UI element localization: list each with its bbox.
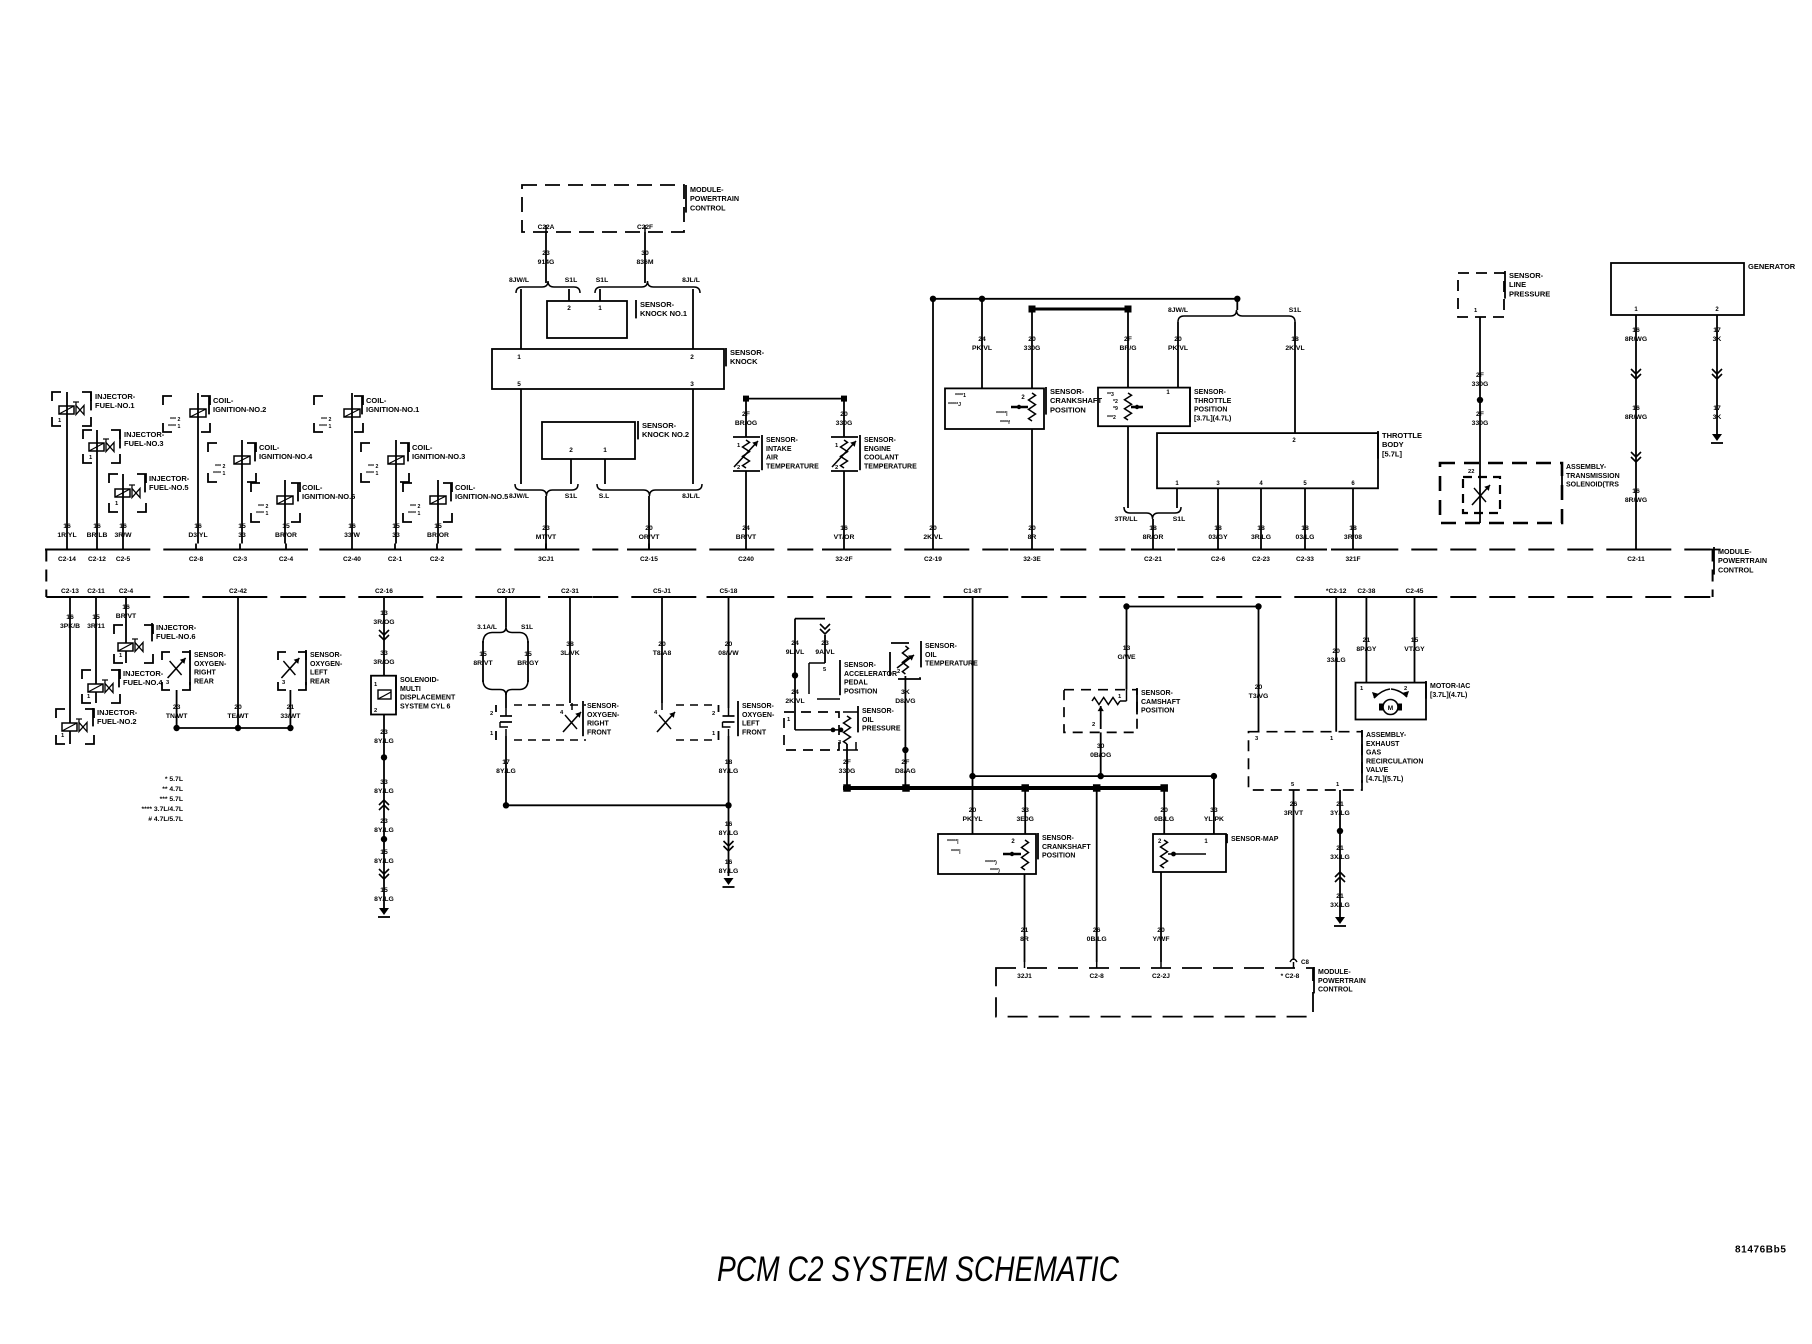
svg-text:IGNITION-NO.6: IGNITION-NO.6 xyxy=(302,492,355,501)
svg-text:21: 21 xyxy=(1021,927,1029,934)
svg-text:3TR/LL: 3TR/LL xyxy=(1114,516,1137,523)
svg-text:C2-33: C2-33 xyxy=(1296,556,1314,563)
svg-text:S1L: S1L xyxy=(521,624,533,631)
svg-text:C2-12: C2-12 xyxy=(88,556,106,563)
svg-text:2: 2 xyxy=(737,465,740,471)
svg-text:2: 2 xyxy=(712,711,715,717)
svg-text:*2: *2 xyxy=(1113,399,1118,405)
svg-text:8JL/L: 8JL/L xyxy=(682,277,700,284)
svg-text:COIL-: COIL- xyxy=(412,443,433,452)
svg-text:SENSOR-: SENSOR- xyxy=(194,652,227,659)
svg-text:33: 33 xyxy=(1210,807,1218,814)
svg-text:321F: 321F xyxy=(1345,556,1360,563)
svg-text:26: 26 xyxy=(1093,927,1101,934)
svg-text:22: 22 xyxy=(1468,469,1474,475)
svg-text:17: 17 xyxy=(502,759,510,766)
svg-text:INJECTOR-: INJECTOR- xyxy=(95,392,136,401)
svg-text:16: 16 xyxy=(1632,327,1640,334)
svg-text:**3: **3 xyxy=(1107,392,1114,398)
svg-text:836M: 836M xyxy=(636,259,653,266)
svg-text:03/LG: 03/LG xyxy=(1296,534,1315,541)
svg-text:C2-45: C2-45 xyxy=(1406,588,1424,595)
svg-text:CRANKSHAFT: CRANKSHAFT xyxy=(1050,396,1102,405)
svg-text:16: 16 xyxy=(119,523,127,530)
svg-text:** 4.7L: ** 4.7L xyxy=(162,786,183,793)
svg-text:REAR: REAR xyxy=(194,678,214,685)
svg-text:POWERTRAIN: POWERTRAIN xyxy=(1718,556,1767,565)
svg-text:18: 18 xyxy=(1291,336,1299,343)
svg-text:3R/08: 3R/08 xyxy=(1344,534,1362,541)
svg-text:8R: 8R xyxy=(1020,936,1029,943)
svg-text:0B/LG: 0B/LG xyxy=(1154,816,1174,823)
svg-text:8Y/LG: 8Y/LG xyxy=(719,868,739,875)
svg-text:FUEL-NO.5: FUEL-NO.5 xyxy=(149,483,189,492)
svg-text:2: 2 xyxy=(897,669,900,675)
svg-text:KNOCK: KNOCK xyxy=(730,357,758,366)
svg-text:COIL-: COIL- xyxy=(213,396,234,405)
svg-text:8R/OR: 8R/OR xyxy=(1143,534,1164,541)
svg-text:17: 17 xyxy=(1713,405,1721,412)
svg-text:M: M xyxy=(1388,705,1393,712)
svg-text:20: 20 xyxy=(658,641,666,648)
svg-text:8R/WG: 8R/WG xyxy=(1625,497,1647,504)
svg-text:15: 15 xyxy=(92,614,100,621)
svg-text:20: 20 xyxy=(234,704,242,711)
svg-text:8Y/LG: 8Y/LG xyxy=(374,788,394,795)
svg-text:30: 30 xyxy=(641,250,649,257)
svg-text:TN/WT: TN/WT xyxy=(166,713,188,720)
svg-text:FUEL-NO.1: FUEL-NO.1 xyxy=(95,401,135,410)
svg-text:23: 23 xyxy=(380,818,388,825)
svg-text:POSITION: POSITION xyxy=(1050,405,1086,414)
svg-text:3X/LG: 3X/LG xyxy=(1330,854,1350,861)
svg-text:20: 20 xyxy=(1174,336,1182,343)
svg-text:33/LG: 33/LG xyxy=(1327,657,1346,664)
svg-text:****f: ****f xyxy=(1000,420,1010,426)
svg-text:FUEL-NO.4: FUEL-NO.4 xyxy=(123,678,163,687)
svg-text:THROTTLE: THROTTLE xyxy=(1382,431,1422,440)
svg-text:20: 20 xyxy=(1028,336,1036,343)
svg-text:33: 33 xyxy=(380,779,388,786)
svg-text:VALVE: VALVE xyxy=(1366,767,1389,774)
svg-text:C2-8: C2-8 xyxy=(1090,973,1105,980)
svg-text:16: 16 xyxy=(1632,488,1640,495)
svg-text:330G: 330G xyxy=(1024,345,1041,352)
svg-text:SENSOR-: SENSOR- xyxy=(742,703,775,710)
svg-text:3R/W: 3R/W xyxy=(115,532,133,539)
svg-text:SENSOR-: SENSOR- xyxy=(1050,387,1085,396)
svg-text:C22F: C22F xyxy=(637,224,653,231)
svg-text:BR/OG: BR/OG xyxy=(735,420,757,427)
svg-text:8R/WG: 8R/WG xyxy=(1625,414,1647,421)
svg-text:IGNITION-NO.4: IGNITION-NO.4 xyxy=(259,452,313,461)
svg-text:SOLENOID(TRS: SOLENOID(TRS xyxy=(1566,482,1619,489)
svg-text:* C2-8: * C2-8 xyxy=(1281,973,1300,980)
svg-text:20: 20 xyxy=(1332,648,1340,655)
svg-text:CONTROL: CONTROL xyxy=(1318,987,1353,994)
svg-text:2: 2 xyxy=(835,465,838,471)
svg-text:3K: 3K xyxy=(1713,336,1722,343)
svg-text:CONTROL: CONTROL xyxy=(690,203,726,212)
svg-text:20: 20 xyxy=(840,411,848,418)
svg-text:OIL: OIL xyxy=(925,652,937,659)
svg-text:18: 18 xyxy=(1214,525,1222,532)
svg-text:33/WT: 33/WT xyxy=(280,713,301,720)
svg-text:C2-4: C2-4 xyxy=(119,588,134,595)
svg-text:32J1: 32J1 xyxy=(1017,973,1032,980)
svg-text:81476Bb5: 81476Bb5 xyxy=(1735,1245,1787,1256)
svg-text:15: 15 xyxy=(282,523,290,530)
svg-text:C2-5: C2-5 xyxy=(116,556,131,563)
svg-text:*** 2: *** 2 xyxy=(170,417,180,423)
svg-text:OXYGEN-: OXYGEN- xyxy=(310,661,343,668)
svg-text:[3.7L](4.7L): [3.7L](4.7L) xyxy=(1430,692,1467,699)
svg-text:POSITION: POSITION xyxy=(1042,853,1075,860)
svg-text:ASSEMBLY-: ASSEMBLY- xyxy=(1366,732,1407,739)
svg-text:15: 15 xyxy=(524,651,532,658)
svg-text:SENSOR-: SENSOR- xyxy=(766,437,799,444)
svg-text:MODULE-: MODULE- xyxy=(1718,547,1752,556)
svg-text:13: 13 xyxy=(380,610,388,617)
svg-text:C5-18: C5-18 xyxy=(720,588,738,595)
svg-text:20: 20 xyxy=(969,807,977,814)
svg-text:8Y/LG: 8Y/LG xyxy=(496,768,516,775)
svg-text:COIL-: COIL- xyxy=(366,396,387,405)
svg-text:IGNITION-NO.1: IGNITION-NO.1 xyxy=(366,405,419,414)
svg-text:*** 5.7L: *** 5.7L xyxy=(160,796,183,803)
svg-text:SOLENOID-: SOLENOID- xyxy=(400,677,440,684)
svg-text:*****): *****) xyxy=(985,860,997,866)
svg-text:POWERTRAIN: POWERTRAIN xyxy=(1318,978,1366,985)
svg-text:BR/VT: BR/VT xyxy=(736,534,757,541)
svg-text:21: 21 xyxy=(1336,845,1344,852)
svg-text:**** 1: **** 1 xyxy=(213,471,226,477)
svg-text:COIL-: COIL- xyxy=(259,443,280,452)
svg-text:CONTROL: CONTROL xyxy=(1718,565,1754,574)
svg-text:LINE: LINE xyxy=(1509,280,1526,289)
svg-text:13: 13 xyxy=(1123,645,1131,652)
svg-text:C2-15: C2-15 xyxy=(640,556,658,563)
svg-text:SENSOR-: SENSOR- xyxy=(1509,271,1544,280)
svg-text:20: 20 xyxy=(1157,927,1165,934)
svg-text:C2-4: C2-4 xyxy=(279,556,294,563)
svg-text:SYSTEM CYL 6: SYSTEM CYL 6 xyxy=(400,703,451,710)
svg-text:08/VW: 08/VW xyxy=(718,650,739,657)
svg-text:****1: ****1 xyxy=(955,393,966,399)
svg-text:2: 2 xyxy=(1092,722,1095,728)
svg-text:**** 1: **** 1 xyxy=(408,511,421,517)
svg-text:24: 24 xyxy=(978,336,986,343)
svg-text:G/WE: G/WE xyxy=(1117,654,1136,661)
svg-text:*****|: *****| xyxy=(947,839,959,845)
svg-text:S1L: S1L xyxy=(596,277,608,284)
svg-text:PRESSURE: PRESSURE xyxy=(1509,289,1550,298)
svg-text:18: 18 xyxy=(1301,525,1309,532)
svg-text:330G: 330G xyxy=(836,420,853,427)
svg-text:24: 24 xyxy=(791,689,799,696)
svg-text:20: 20 xyxy=(1255,684,1263,691)
svg-text:ASSEMBLY-: ASSEMBLY- xyxy=(1566,464,1607,471)
svg-text:16: 16 xyxy=(122,604,130,611)
svg-text:16: 16 xyxy=(194,523,202,530)
svg-text:8P/GY: 8P/GY xyxy=(1356,646,1376,653)
svg-text:C2-2J: C2-2J xyxy=(1152,973,1170,980)
svg-text:*** 2: *** 2 xyxy=(321,417,331,423)
svg-text:8JL/L: 8JL/L xyxy=(682,493,700,500)
svg-text:3Y/LG: 3Y/LG xyxy=(1330,810,1350,817)
svg-text:MODULE-: MODULE- xyxy=(1318,969,1351,976)
svg-text:15: 15 xyxy=(380,887,388,894)
svg-text:C2-21: C2-21 xyxy=(1144,556,1162,563)
svg-text:*****|: *****| xyxy=(996,411,1008,417)
svg-text:T8/A8: T8/A8 xyxy=(653,650,672,657)
svg-text:C8: C8 xyxy=(1301,959,1309,966)
svg-text:TEMPERATURE: TEMPERATURE xyxy=(766,463,819,470)
svg-text:8Y/LG: 8Y/LG xyxy=(719,768,739,775)
svg-text:POSITION: POSITION xyxy=(1141,708,1174,715)
svg-text:23: 23 xyxy=(542,525,550,532)
svg-text:S1L: S1L xyxy=(565,493,577,500)
svg-text:BR/G: BR/G xyxy=(1120,345,1137,352)
svg-text:PK/YL: PK/YL xyxy=(962,816,982,823)
svg-text:BR/LB: BR/LB xyxy=(87,532,108,539)
svg-text:TE/WT: TE/WT xyxy=(227,713,249,720)
svg-text:33: 33 xyxy=(238,532,246,539)
svg-text:ENGINE: ENGINE xyxy=(864,446,891,453)
svg-text:*** 2: *** 2 xyxy=(215,464,225,470)
svg-text:26: 26 xyxy=(1290,801,1298,808)
svg-text:C2-2: C2-2 xyxy=(430,556,445,563)
svg-text:8Y/LG: 8Y/LG xyxy=(374,858,394,865)
svg-text:32-2F: 32-2F xyxy=(835,556,852,563)
svg-text:SENSOR-: SENSOR- xyxy=(730,348,765,357)
svg-text:**** 3.7L/4.7L: **** 3.7L/4.7L xyxy=(141,806,183,813)
svg-text:2F: 2F xyxy=(742,411,750,418)
svg-text:DISPLACEMENT: DISPLACEMENT xyxy=(400,695,456,702)
svg-text:330G: 330G xyxy=(1472,420,1489,427)
svg-text:2: 2 xyxy=(690,354,694,361)
svg-text:8R: 8R xyxy=(1028,534,1037,541)
svg-text:20: 20 xyxy=(725,641,733,648)
svg-text:CAMSHAFT: CAMSHAFT xyxy=(1141,699,1181,706)
svg-text:TRANSMISSION: TRANSMISSION xyxy=(1566,473,1620,480)
svg-text:PRESSURE: PRESSURE xyxy=(862,726,901,733)
svg-text:**** 1: **** 1 xyxy=(168,424,181,430)
svg-text:3: 3 xyxy=(690,381,694,388)
svg-text:RIGHT: RIGHT xyxy=(587,721,610,728)
svg-text:16: 16 xyxy=(725,821,733,828)
svg-text:****): ****) xyxy=(990,868,1000,874)
svg-text:*****J: *****J xyxy=(948,402,961,408)
svg-text:FRONT: FRONT xyxy=(587,729,612,736)
svg-text:16: 16 xyxy=(348,523,356,530)
svg-text:T3/VG: T3/VG xyxy=(1249,693,1269,700)
svg-text:3K: 3K xyxy=(901,689,910,696)
svg-text:IGNITION-NO.2: IGNITION-NO.2 xyxy=(213,405,266,414)
svg-text:**** 1: **** 1 xyxy=(366,471,379,477)
svg-text:24: 24 xyxy=(791,640,799,647)
svg-text:18: 18 xyxy=(1149,525,1157,532)
svg-text:20: 20 xyxy=(645,525,653,532)
svg-text:S.L: S.L xyxy=(599,493,610,500)
svg-text:21: 21 xyxy=(287,704,295,711)
svg-text:03/GY: 03/GY xyxy=(1208,534,1228,541)
svg-text:*9: *9 xyxy=(1113,406,1118,412)
svg-text:VT/OR: VT/OR xyxy=(834,534,855,541)
svg-text:2: 2 xyxy=(567,305,571,312)
svg-text:**** 1: **** 1 xyxy=(256,511,269,517)
svg-text:33: 33 xyxy=(380,650,388,657)
svg-text:PCM C2 SYSTEM SCHEMATIC: PCM C2 SYSTEM SCHEMATIC xyxy=(717,1250,1120,1289)
svg-text:THROTTLE: THROTTLE xyxy=(1194,398,1232,405)
svg-text:COIL-: COIL- xyxy=(455,483,476,492)
svg-text:20: 20 xyxy=(1028,525,1036,532)
svg-text:24: 24 xyxy=(742,525,750,532)
svg-text:3X/LG: 3X/LG xyxy=(1330,902,1350,909)
svg-text:330G: 330G xyxy=(1472,381,1489,388)
svg-text:IGNITION-NO.5: IGNITION-NO.5 xyxy=(455,492,508,501)
svg-text:COOLANT: COOLANT xyxy=(864,455,899,462)
svg-text:16: 16 xyxy=(1632,405,1640,412)
svg-text:[4.7L](5.7L): [4.7L](5.7L) xyxy=(1366,776,1403,783)
svg-text:8R/WG: 8R/WG xyxy=(1625,336,1647,343)
svg-text:2F: 2F xyxy=(1476,411,1484,418)
svg-text:3PK/B: 3PK/B xyxy=(60,623,80,630)
svg-text:C2-11: C2-11 xyxy=(1627,556,1645,563)
svg-text:C2-19: C2-19 xyxy=(924,556,942,563)
svg-text:S1L: S1L xyxy=(565,277,577,284)
svg-text:2F: 2F xyxy=(901,759,909,766)
svg-text:BR/GY: BR/GY xyxy=(517,660,539,667)
svg-text:S1L: S1L xyxy=(1289,307,1301,314)
svg-text:8Y/LG: 8Y/LG xyxy=(374,827,394,834)
svg-text:C2-42: C2-42 xyxy=(229,588,247,595)
svg-text:LEFT: LEFT xyxy=(742,721,760,728)
svg-text:SENSOR-MAP: SENSOR-MAP xyxy=(1231,836,1279,843)
svg-text:16: 16 xyxy=(725,859,733,866)
svg-text:S1L: S1L xyxy=(1173,516,1185,523)
svg-text:**** 1: **** 1 xyxy=(319,424,332,430)
svg-text:INJECTOR-: INJECTOR- xyxy=(156,623,197,632)
svg-text:8R/VT: 8R/VT xyxy=(473,660,493,667)
svg-text:2: 2 xyxy=(569,447,573,454)
svg-text:YL/PK: YL/PK xyxy=(1204,816,1224,823)
svg-text:3CJ1: 3CJ1 xyxy=(538,556,554,563)
svg-text:KNOCK NO.2: KNOCK NO.2 xyxy=(642,430,689,439)
svg-text:****|: ****| xyxy=(951,849,961,855)
svg-text:BR/OR: BR/OR xyxy=(427,532,449,539)
svg-text:ACCELERATOR: ACCELERATOR xyxy=(844,671,897,678)
svg-text:9L/VL: 9L/VL xyxy=(786,649,805,656)
svg-text:OXYGEN-: OXYGEN- xyxy=(742,712,775,719)
svg-text:16: 16 xyxy=(63,523,71,530)
svg-text:2: 2 xyxy=(1404,686,1407,692)
svg-text:***2: ***2 xyxy=(1107,415,1116,421)
svg-text:C2-6: C2-6 xyxy=(1211,556,1226,563)
svg-text:2K/VL: 2K/VL xyxy=(1285,345,1304,352)
svg-text:C2-1: C2-1 xyxy=(388,556,403,563)
svg-text:FUEL-NO.2: FUEL-NO.2 xyxy=(97,717,137,726)
svg-text:[5.7L]: [5.7L] xyxy=(1382,449,1403,458)
svg-text:POSITION: POSITION xyxy=(1194,407,1227,414)
svg-text:CRANKSHAFT: CRANKSHAFT xyxy=(1042,844,1091,851)
svg-text:8JW/L: 8JW/L xyxy=(509,493,529,500)
svg-text:3R/OG: 3R/OG xyxy=(373,619,394,626)
svg-text:2K/VL: 2K/VL xyxy=(785,698,804,705)
svg-text:1: 1 xyxy=(517,354,521,361)
svg-text:38: 38 xyxy=(566,641,574,648)
svg-text:8JW/L: 8JW/L xyxy=(1168,307,1188,314)
svg-text:33: 33 xyxy=(1021,807,1029,814)
svg-text:RIGHT: RIGHT xyxy=(194,670,217,677)
svg-text:3R/LG: 3R/LG xyxy=(1251,534,1271,541)
svg-text:18: 18 xyxy=(1349,525,1357,532)
svg-text:C2-40: C2-40 xyxy=(343,556,361,563)
svg-text:AIR: AIR xyxy=(766,455,778,462)
svg-text:1: 1 xyxy=(603,447,607,454)
svg-text:SENSOR-: SENSOR- xyxy=(640,300,675,309)
svg-text:SENSOR-: SENSOR- xyxy=(1042,835,1075,842)
svg-text:15: 15 xyxy=(434,523,442,530)
svg-text:3K: 3K xyxy=(1713,414,1722,421)
svg-text:KNOCK NO.1: KNOCK NO.1 xyxy=(640,309,687,318)
svg-text:# 4.7L/5.7L: # 4.7L/5.7L xyxy=(148,816,183,823)
svg-text:2F: 2F xyxy=(843,759,851,766)
svg-text:C2-23: C2-23 xyxy=(1252,556,1270,563)
svg-text:PK/VL: PK/VL xyxy=(1168,345,1188,352)
svg-text:16: 16 xyxy=(66,614,74,621)
svg-text:TEMPERATURE: TEMPERATURE xyxy=(925,661,978,668)
svg-text:MODULE-: MODULE- xyxy=(690,185,724,194)
svg-text:0B/LG: 0B/LG xyxy=(1087,936,1107,943)
svg-text:OR/VT: OR/VT xyxy=(639,534,661,541)
svg-text:3R/OG: 3R/OG xyxy=(373,659,394,666)
svg-text:C240: C240 xyxy=(738,556,754,563)
svg-text:TEMPERATURE: TEMPERATURE xyxy=(864,463,917,470)
svg-text:RECIRCULATION: RECIRCULATION xyxy=(1366,758,1423,765)
svg-text:C5-J1: C5-J1 xyxy=(653,588,671,595)
svg-text:33/W: 33/W xyxy=(344,532,360,539)
svg-text:8Y/LG: 8Y/LG xyxy=(374,896,394,903)
svg-text:INJECTOR-: INJECTOR- xyxy=(123,669,164,678)
svg-text:23: 23 xyxy=(542,250,550,257)
svg-text:32-3E: 32-3E xyxy=(1023,556,1041,563)
svg-text:20: 20 xyxy=(1160,807,1168,814)
svg-text:FUEL-NO.6: FUEL-NO.6 xyxy=(156,632,196,641)
svg-text:2F: 2F xyxy=(1476,372,1484,379)
svg-text:3R/11: 3R/11 xyxy=(87,623,105,630)
svg-text:*** 2: *** 2 xyxy=(368,464,378,470)
svg-text:MULTI: MULTI xyxy=(400,686,421,693)
svg-text:SENSOR-: SENSOR- xyxy=(844,662,877,669)
svg-text:C2-17: C2-17 xyxy=(497,588,515,595)
svg-text:C2-8: C2-8 xyxy=(189,556,204,563)
svg-text:MOTOR-IAC: MOTOR-IAC xyxy=(1430,683,1470,690)
svg-text:C2-16: C2-16 xyxy=(375,588,393,595)
svg-text:BODY: BODY xyxy=(1382,440,1404,449)
svg-text:5: 5 xyxy=(517,381,521,388)
svg-text:SENSOR-: SENSOR- xyxy=(310,652,343,659)
svg-text:SENSOR-: SENSOR- xyxy=(587,703,620,710)
svg-text:330G: 330G xyxy=(839,768,856,775)
svg-text:POSITION: POSITION xyxy=(844,688,877,695)
svg-text:SENSOR-: SENSOR- xyxy=(925,643,958,650)
svg-text:D8/VG: D8/VG xyxy=(895,698,915,705)
svg-text:15: 15 xyxy=(380,849,388,856)
svg-text:D3/YL: D3/YL xyxy=(188,532,207,539)
svg-text:16: 16 xyxy=(93,523,101,530)
svg-text:SENSOR-: SENSOR- xyxy=(862,708,895,715)
